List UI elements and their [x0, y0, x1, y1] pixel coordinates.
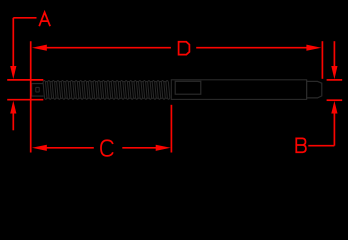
- label D: [178, 42, 190, 55]
- dim D extension line left: [30, 41, 32, 152]
- dim C dimension line with arrows: [32, 145, 47, 151]
- label A: [39, 12, 50, 26]
- dim B lower arrow and leader: [331, 101, 337, 114]
- dim A extension lines (thread OD): [7, 79, 43, 81]
- dim D dimension line with arrows: [32, 45, 47, 51]
- threaded section (coil texture): [43, 81, 170, 100]
- dim D extension line right: [321, 41, 323, 79]
- dim B extension lines (shank dia): [327, 79, 343, 81]
- chamfered tip: [307, 80, 322, 100]
- dim C extension line right: [170, 105, 172, 153]
- shank inner rectangle marking: [175, 81, 201, 94]
- label B: [295, 138, 306, 152]
- left end section of stud: [32, 84, 44, 97]
- smooth shank outline: [171, 80, 306, 100]
- left end hole mark: [36, 87, 39, 92]
- label C: [101, 140, 113, 156]
- dim B upper arrow: [333, 41, 335, 66]
- dim A leader with label: [13, 17, 36, 19]
- dim A lower arrow: [10, 101, 16, 114]
